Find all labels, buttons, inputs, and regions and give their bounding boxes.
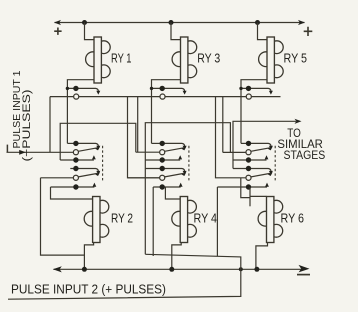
wire: RY 3 coil bottom to contact feed — [152, 80, 181, 144]
wire: row1 feed col2 — [152, 142, 161, 144]
node: RY4 junction on lower rail — [169, 267, 174, 272]
wire: col3 upper NO tee drop to row2 — [222, 97, 224, 153]
wire: upper NO contact row — [128, 96, 216, 98]
relay coil RY1 — [86, 37, 111, 83]
node: RY 3 armature pivot — [160, 86, 165, 91]
contact: RY 5 armature (upper) — [241, 88, 273, 94]
tick at pulse input 1 terminal — [6, 145, 8, 153]
label TO — [287, 126, 301, 140]
label RY 3 — [197, 51, 220, 66]
label RY 6 — [281, 210, 305, 225]
svg-text:RY 5: RY 5 — [284, 51, 308, 66]
wire: top rail to RY 5 coil — [258, 23, 268, 40]
node: top rail junction to RY3 — [169, 20, 174, 25]
wire: RY4 coil bottom to lower rail — [172, 243, 181, 270]
node: transfer B pivot col1 — [73, 166, 78, 171]
label PULSE INPUT 2 — [11, 282, 166, 297]
svg-text:PULSE INPUT 2 (+ PULSES): PULSE INPUT 2 (+ PULSES) — [11, 282, 166, 297]
wire: col3 row6 junction vertical — [249, 187, 251, 206]
node: corner blob at coil feed col2 — [150, 87, 153, 90]
relay coil RY3 — [172, 37, 197, 83]
label STAGES — [284, 148, 326, 162]
contact: RY 3 NO contact (upper) — [160, 94, 165, 99]
node: top rail junction to RY5 — [255, 20, 260, 25]
wire: carry col3 riser and line to similar stages — [233, 121, 296, 168]
relay coil RY2 — [84, 197, 109, 243]
contact: RY 1 NO contact (upper) — [74, 94, 79, 99]
contact: transfer B slant armature col1 — [78, 172, 100, 177]
svg-text:RY 6: RY 6 — [281, 210, 305, 225]
relay coil RY5 — [259, 37, 284, 83]
node: corner blob at coil feed col1 — [66, 87, 69, 90]
wire: col2 row2 feed from carry — [136, 151, 160, 153]
contact: RY 5 NO contact (upper) — [246, 94, 251, 99]
contact: transfer B slant armature col3 — [251, 172, 273, 177]
wire: top rail to RY 1 coil — [85, 23, 95, 40]
wire+contact: row3 col3 — [233, 155, 268, 163]
label + (right supply terminal) — [304, 27, 313, 36]
node: transfer B pivot col2 — [160, 166, 165, 171]
contact: transfer set B armature col3 — [233, 169, 273, 175]
node: corner blob at coil feed col3 — [239, 87, 242, 90]
node: transfer A pivot col2 — [160, 141, 165, 146]
terminal arrow left end of top rail — [54, 20, 61, 25]
label (-PULSES) (vertical) — [21, 90, 33, 162]
wire+contact: row6 col1 — [51, 183, 97, 190]
wire: top rail to RY 3 coil — [171, 23, 181, 40]
wire: col1 upper NO to pulse line (x=50 drop) — [49, 97, 51, 153]
contact: RY 3 armature (upper) — [152, 88, 187, 94]
node: transfer A pivot col1 — [73, 141, 78, 146]
label + (left supply terminal) — [54, 28, 61, 35]
label RY 2 — [111, 210, 133, 225]
wire: RY2 coil bottom to lower rail — [84, 243, 93, 270]
wire+contact: row3 col1 — [60, 155, 96, 163]
contact: transfer set A armature col3 — [247, 143, 273, 149]
contact: transfer set B armature col1 — [70, 169, 100, 175]
contact: RY 1 armature (upper) — [67, 88, 100, 94]
wire: col1 upper NO right drop to col2 row5 — [128, 97, 160, 178]
relay coil RY6 — [258, 197, 283, 243]
wire: hook to RY6 coil top — [250, 195, 267, 197]
terminal arrow left end of lower rail — [53, 266, 62, 272]
mechanical link (dashed) col3 — [274, 146, 276, 181]
label RY 5 — [284, 51, 308, 66]
wire: upper NO contact row — [50, 96, 128, 98]
contact: transfer A NO circle col1 — [73, 150, 78, 155]
wire: col2 upper NO tee drop to row2 — [137, 97, 139, 153]
contact: transfer B slant armature col2 — [165, 172, 187, 177]
label SIMILAR — [277, 137, 323, 151]
wire: col2 row5 feed — [128, 177, 160, 179]
wire+contact: row6 col2 — [153, 183, 182, 190]
wire: RY6 coil bottom to lower rail — [256, 243, 268, 270]
contact: transfer B NO circle col1 — [73, 175, 78, 180]
mechanical link (dashed) col2 — [188, 146, 190, 181]
wire+contact: row3 col2 — [145, 155, 182, 163]
wire: row1 feed col3 — [241, 142, 247, 144]
contact: transfer A slant armature col3 — [251, 147, 273, 152]
node: RY 1 armature pivot — [73, 86, 78, 91]
node: RY2 junction on lower rail — [82, 267, 87, 272]
terminal arrow right end of top rail — [298, 20, 305, 25]
contact: transfer set A armature col2 — [160, 143, 186, 149]
wire: pulse input 1 line — [7, 151, 74, 153]
contact: transfer A slant armature col2 — [165, 147, 187, 152]
contact: transfer B NO circle col3 — [246, 175, 251, 180]
node: transfer B pivot col3 — [246, 166, 251, 171]
wire: col3 row5 drop to junction — [241, 178, 250, 198]
mechanical link (dashed) col1 — [102, 146, 104, 181]
wire: top positive supply rail — [55, 22, 305, 24]
wire: RY 5 coil bottom to contact feed — [241, 80, 267, 144]
arrow: to similar stages — [295, 119, 302, 124]
contact: transfer A NO circle col3 — [246, 150, 251, 155]
wire: RY 1 coil bottom to contact feed — [67, 80, 94, 144]
terminal arrow right end of lower rail — [299, 265, 310, 273]
wire+contact: row6 col3 — [217, 183, 269, 190]
label PULSE INPUT 1 (vertical) — [12, 70, 23, 148]
node: RY 5 armature pivot — [246, 86, 251, 91]
svg-text:RY 2: RY 2 — [111, 210, 133, 225]
svg-text:RY 3: RY 3 — [197, 51, 220, 66]
relay coil RY4 — [172, 197, 197, 243]
contact: transfer A slant armature col1 — [78, 147, 100, 152]
svg-text:RY 1: RY 1 — [111, 51, 132, 66]
node: transfer A pivot col3 — [246, 141, 251, 146]
wire: col2 row6 hook to RY4 coil top — [165, 187, 180, 199]
tick below lower rail right terminal — [297, 274, 310, 276]
arrow: pulse input 1 — [19, 150, 26, 155]
contact: transfer set B armature col2 — [145, 169, 186, 175]
wire: row1 feed col1 — [67, 142, 74, 144]
wire: col2 upper NO right drop to col3 row5 — [216, 97, 247, 178]
label RY 4 — [194, 210, 218, 225]
contact: transfer B NO circle col2 — [160, 175, 165, 180]
wire: col3 row2 feed — [223, 151, 246, 153]
svg-text:(−PULSES): (−PULSES) — [21, 90, 33, 162]
wire: carry col1 row3 up and over to col2 row2 — [60, 123, 136, 160]
label RY 1 — [111, 51, 132, 66]
wire: col3 row6 left drop — [216, 187, 218, 257]
wire: col1 row6 to RY2 coil top — [51, 187, 93, 199]
node: pulse input 2 riser junction on lower rail — [239, 267, 243, 271]
wire: lower pulse rail — [54, 268, 304, 270]
svg-text:STAGES: STAGES — [284, 148, 326, 162]
wire: upper NO contact row — [216, 96, 281, 98]
node: RY6 junction on lower rail — [254, 267, 259, 272]
node: top rail junction to RY1 — [82, 20, 87, 25]
wire: col2 row6 left drop — [152, 187, 154, 256]
contact: transfer A NO circle col2 — [160, 150, 165, 155]
contact: transfer set A armature col1 — [74, 143, 100, 149]
wire: bottom collector to pulse input 2 — [8, 254, 241, 299]
wire: carry col2 vertical + over to col3 row2 — [145, 123, 230, 255]
svg-text:RY 4: RY 4 — [194, 210, 218, 225]
wire: col1 row5 to bottom junction — [41, 178, 85, 255]
